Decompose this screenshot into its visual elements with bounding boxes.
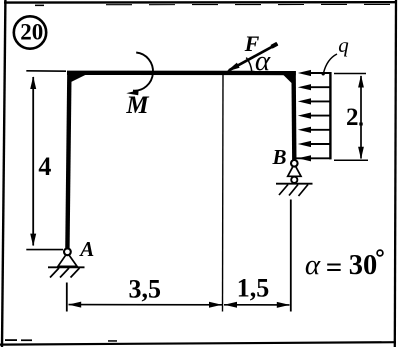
extension line at B (bottom)	[290, 200, 292, 312]
dimension line 1,5	[224, 302, 290, 308]
moment M arc	[126, 53, 153, 96]
svg-text:2: 2	[346, 104, 359, 131]
svg-text:30: 30	[349, 250, 378, 281]
support B	[276, 160, 313, 196]
left column (member A)	[67, 71, 69, 250]
beam (top horizontal member)	[67, 71, 296, 76]
border top	[4, 1, 397, 4]
extension line at A (bottom)	[66, 283, 68, 312]
svg-text:20: 20	[20, 20, 43, 45]
border bottom	[0, 342, 396, 344]
right corner fillet	[283, 75, 292, 84]
force F arrow	[226, 44, 277, 72]
leader line for q	[324, 54, 338, 73]
scan artifact dashes above bottom border	[5, 339, 117, 342]
svg-text:3,5: 3,5	[129, 274, 162, 303]
svg-text:α: α	[305, 249, 321, 281]
distributed load q block	[296, 70, 330, 161]
extension line mid (under F point)	[222, 74, 225, 312]
svg-text:=: =	[326, 252, 343, 284]
border left	[2, 0, 5, 347]
scan artifact dashed line under top border	[35, 4, 396, 6]
left corner fillet	[71, 75, 86, 82]
support A	[48, 248, 85, 277]
right member (member B)	[291, 71, 296, 160]
dimension 4 (left)	[26, 71, 66, 250]
svg-text:1,5: 1,5	[237, 274, 270, 303]
svg-text:4: 4	[38, 152, 51, 181]
svg-text:q: q	[338, 33, 349, 57]
svg-text:M: M	[125, 92, 149, 119]
dimension line 3,5	[68, 302, 222, 308]
svg-text:B: B	[271, 145, 286, 169]
svg-text:α: α	[255, 45, 271, 77]
svg-text:A: A	[78, 237, 94, 261]
dimension 2 (right)	[334, 74, 368, 161]
problem number badge 20	[14, 16, 46, 48]
border right	[395, 0, 396, 347]
equation alpha = 30 deg	[305, 249, 383, 284]
angle alpha arc	[246, 58, 252, 72]
